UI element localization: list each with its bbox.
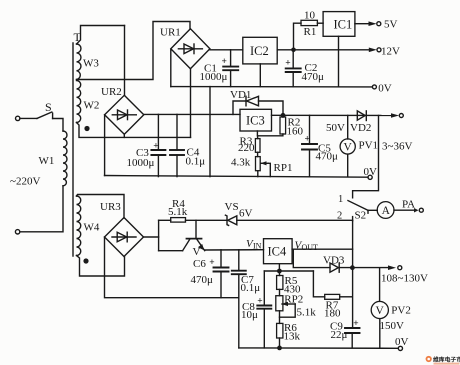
svg-text:UR1: UR1	[160, 27, 181, 39]
svg-text:IC1: IC1	[334, 18, 353, 32]
svg-text:VD1: VD1	[230, 89, 251, 101]
svg-text:470μ: 470μ	[302, 71, 325, 83]
svg-text:T: T	[74, 30, 82, 44]
svg-text:UR3: UR3	[100, 201, 121, 213]
svg-text:5.1k: 5.1k	[297, 307, 317, 319]
svg-text:1000μ: 1000μ	[200, 71, 228, 83]
svg-text:PV1: PV1	[359, 140, 379, 152]
svg-text:IC4: IC4	[268, 245, 288, 259]
svg-text:2: 2	[337, 211, 342, 222]
svg-text:V: V	[344, 142, 353, 154]
svg-text:IC3: IC3	[246, 114, 265, 128]
svg-text:W1: W1	[39, 155, 55, 167]
svg-text:180: 180	[324, 308, 341, 320]
svg-text:0V: 0V	[395, 336, 409, 348]
svg-text:C6: C6	[193, 258, 206, 270]
svg-text:VD3: VD3	[323, 255, 345, 267]
svg-text:维库电子市场网: 维库电子市场网	[433, 356, 460, 364]
svg-text:VD2: VD2	[350, 122, 371, 134]
svg-text:220: 220	[238, 142, 255, 154]
svg-text:+: +	[222, 57, 227, 67]
svg-text:IC2: IC2	[250, 44, 269, 58]
svg-text:0V: 0V	[378, 82, 392, 94]
svg-text:+: +	[153, 141, 158, 151]
svg-text:PA: PA	[402, 199, 415, 211]
svg-text:W4: W4	[84, 222, 100, 234]
svg-text:RP2: RP2	[284, 293, 303, 305]
svg-text:10: 10	[304, 9, 316, 21]
svg-text:V: V	[376, 305, 385, 317]
svg-text:+: +	[209, 258, 214, 268]
svg-text:OUT: OUT	[302, 243, 319, 252]
svg-text:5V: 5V	[384, 19, 398, 31]
svg-text:W2: W2	[84, 100, 100, 112]
svg-text:6V: 6V	[239, 208, 253, 220]
svg-text:+: +	[285, 59, 290, 69]
svg-text:RP1: RP1	[274, 162, 293, 174]
svg-text:A: A	[382, 205, 391, 217]
svg-text:4.3k: 4.3k	[231, 156, 251, 168]
svg-text:13k: 13k	[284, 331, 301, 343]
svg-text:+: +	[353, 319, 358, 329]
svg-text:0V: 0V	[364, 166, 378, 178]
svg-text:470μ: 470μ	[191, 274, 214, 286]
svg-text:150V: 150V	[380, 320, 405, 332]
svg-text:PV2: PV2	[391, 305, 411, 317]
svg-text:50V: 50V	[326, 122, 345, 134]
svg-text:1000μ: 1000μ	[127, 157, 155, 169]
svg-text:S2: S2	[355, 209, 367, 221]
svg-text:12V: 12V	[381, 46, 400, 58]
svg-text:V: V	[193, 246, 201, 258]
svg-text:R1: R1	[304, 26, 317, 38]
svg-text:160: 160	[287, 126, 304, 138]
svg-text:22μ: 22μ	[331, 329, 348, 341]
svg-text:470μ: 470μ	[316, 150, 339, 162]
svg-text:VS: VS	[225, 201, 239, 213]
svg-text:UR2: UR2	[101, 86, 122, 98]
svg-text:3~36V: 3~36V	[382, 140, 412, 152]
svg-text:5.1k: 5.1k	[168, 206, 188, 218]
svg-text:~220V: ~220V	[10, 176, 40, 188]
svg-text:IN: IN	[253, 242, 262, 251]
svg-text:0.1μ: 0.1μ	[186, 156, 206, 168]
svg-text:108~130V: 108~130V	[381, 272, 428, 284]
svg-text:10μ: 10μ	[241, 309, 258, 321]
svg-text:+: +	[257, 296, 262, 306]
svg-text:+: +	[305, 134, 310, 144]
svg-text:S: S	[45, 100, 52, 114]
svg-text:W3: W3	[83, 58, 99, 70]
svg-text:0.1μ: 0.1μ	[241, 282, 261, 294]
svg-text:1: 1	[338, 194, 343, 205]
